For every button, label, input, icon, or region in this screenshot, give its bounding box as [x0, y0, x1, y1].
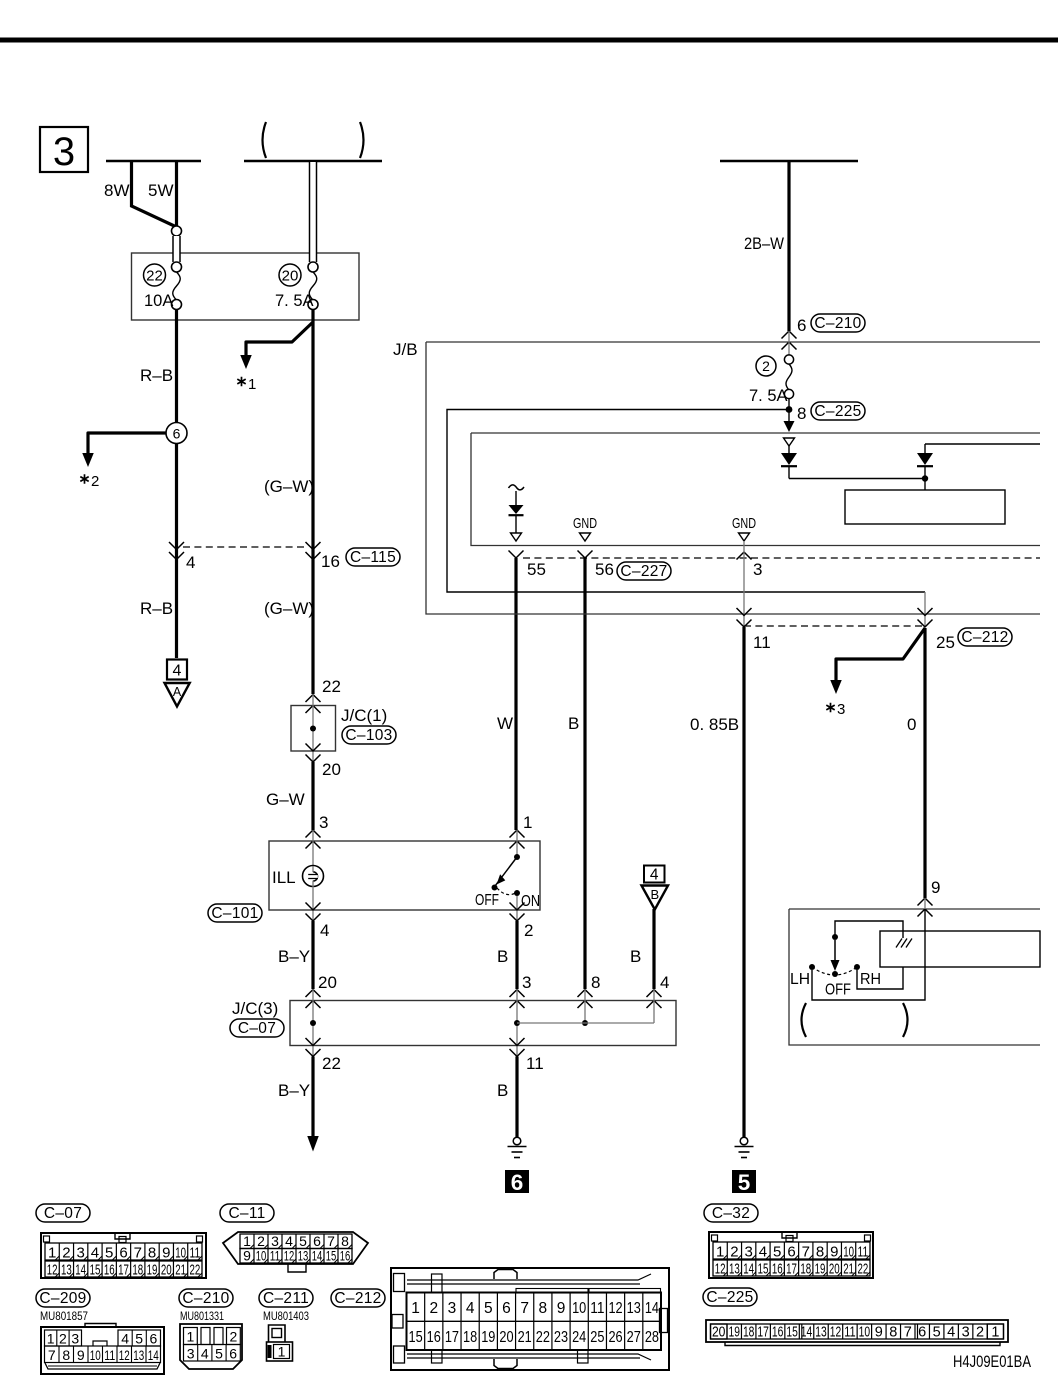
svg-text:6: 6 — [797, 316, 806, 335]
svg-text:6: 6 — [229, 1346, 237, 1362]
svg-text:0. 85B: 0. 85B — [690, 715, 739, 734]
svg-text:21: 21 — [843, 1261, 854, 1278]
connector C-11 drawing — [223, 1232, 368, 1264]
ground triangle A — [165, 683, 190, 707]
svg-text:18: 18 — [800, 1261, 811, 1278]
connector C-225 drawing — [706, 1320, 1008, 1342]
svg-text:4: 4 — [186, 553, 195, 572]
switch common feed to chassis ground — [835, 921, 903, 938]
svg-text:12: 12 — [119, 1347, 130, 1363]
svg-text:3: 3 — [71, 1331, 79, 1347]
J/C(3) wire crossings top — [306, 990, 321, 998]
svg-text:2: 2 — [976, 1325, 984, 1341]
svg-text:19: 19 — [729, 1325, 740, 1341]
optional parenthesis left — [802, 1003, 807, 1037]
svg-text:4: 4 — [660, 973, 669, 992]
connector C-227 dashed line — [523, 557, 1040, 559]
top border rule — [0, 38, 1058, 43]
svg-text:4: 4 — [759, 1244, 767, 1261]
svg-text:18: 18 — [743, 1325, 754, 1341]
svg-text:3: 3 — [187, 1346, 195, 1362]
switch wire crossing top — [510, 830, 525, 838]
fuse 2 in J/B — [788, 331, 790, 355]
fuse 2 output node — [788, 399, 790, 411]
C-227 crossing pin 56 — [578, 551, 593, 559]
svg-text:C–07: C–07 — [44, 1205, 82, 1222]
svg-text:16: 16 — [772, 1261, 783, 1278]
svg-text:27: 27 — [627, 1329, 641, 1346]
svg-text:C–210: C–210 — [814, 315, 861, 332]
svg-text:12: 12 — [284, 1248, 295, 1264]
svg-text:10: 10 — [572, 1300, 586, 1317]
svg-text:11: 11 — [857, 1244, 868, 1261]
terminal triangle below entry — [784, 438, 795, 446]
wire B-Y from lamp — [311, 921, 314, 989]
svg-text:6: 6 — [787, 1244, 795, 1261]
C-225 group separators — [801, 1324, 803, 1339]
svg-text:9: 9 — [243, 1248, 251, 1264]
connector C-212 drawing — [391, 1268, 669, 1370]
svg-text:B–Y: B–Y — [278, 1081, 310, 1100]
svg-text:1: 1 — [411, 1300, 420, 1317]
svg-text:3: 3 — [745, 1244, 753, 1261]
svg-text:4: 4 — [466, 1300, 475, 1317]
svg-text:C–11: C–11 — [228, 1205, 265, 1222]
svg-text:B–Y: B–Y — [278, 947, 310, 966]
svg-text:6: 6 — [150, 1331, 158, 1347]
svg-text:1: 1 — [716, 1244, 724, 1261]
branch to *1 — [246, 322, 313, 355]
svg-text:20: 20 — [829, 1261, 840, 1278]
svg-text:12: 12 — [608, 1300, 622, 1317]
connector C-212 dashed line — [744, 625, 925, 627]
svg-text:9: 9 — [162, 1245, 170, 1262]
wire 0.85B inside J/B — [743, 541, 745, 626]
junction connector J/C(1) C-103 — [291, 706, 336, 752]
svg-text:3: 3 — [319, 813, 328, 832]
svg-text:6: 6 — [173, 426, 181, 442]
arrow B-Y continues — [307, 1136, 319, 1152]
svg-text:10: 10 — [843, 1244, 854, 1261]
connector C-115 dashed line — [183, 546, 307, 548]
svg-text:4: 4 — [173, 663, 182, 680]
switch dashed travel arc — [812, 967, 857, 975]
diode right — [924, 444, 926, 453]
svg-text:9: 9 — [830, 1244, 838, 1261]
svg-text:22: 22 — [146, 268, 163, 285]
switch wire crossing bottom — [510, 903, 525, 911]
svg-text:ILL: ILL — [272, 868, 296, 887]
svg-text:15: 15 — [90, 1262, 101, 1279]
ground ref box 4 — [167, 660, 187, 680]
rear fog lamp switch box — [789, 909, 1040, 1045]
svg-text:12: 12 — [715, 1261, 726, 1278]
svg-text:56: 56 — [595, 560, 614, 579]
svg-text:A: A — [173, 685, 182, 699]
svg-text:12: 12 — [830, 1325, 841, 1341]
left parenthesis on bus — [263, 122, 267, 158]
svg-text:MU801857: MU801857 — [40, 1309, 88, 1323]
svg-text:7: 7 — [520, 1300, 529, 1317]
label *3 — [826, 703, 834, 713]
svg-text:17: 17 — [786, 1261, 797, 1278]
wire R-B from fuse 22 — [175, 309, 178, 658]
svg-text:3: 3 — [753, 560, 762, 579]
svg-text:(G–W): (G–W) — [264, 477, 314, 496]
svg-text:J/B: J/B — [393, 340, 418, 359]
connector C-210 drawing — [180, 1324, 242, 1369]
svg-text:13: 13 — [133, 1347, 144, 1363]
svg-text:22: 22 — [322, 677, 341, 696]
arrow *1 — [240, 355, 252, 369]
connector label C-212 ref — [958, 628, 1012, 646]
C-227 crossing pin 55 — [509, 551, 524, 559]
svg-text:20: 20 — [712, 1325, 726, 1341]
wire B from switch — [515, 921, 518, 989]
svg-text:19: 19 — [481, 1329, 495, 1346]
svg-text:2B–W: 2B–W — [744, 234, 784, 253]
connector C-07 drawing — [41, 1233, 206, 1278]
lamp wire crossing bottom — [306, 903, 321, 911]
ground triangle B — [642, 886, 669, 910]
svg-text:10: 10 — [859, 1325, 870, 1341]
svg-text:1: 1 — [187, 1329, 195, 1345]
svg-text:5: 5 — [773, 1244, 781, 1261]
wire branch to *2 — [88, 433, 166, 453]
wire B from ground ref — [652, 909, 655, 989]
svg-text:5: 5 — [484, 1300, 493, 1317]
label *1 — [237, 377, 245, 387]
svg-text:15: 15 — [758, 1261, 769, 1278]
ground number 5 — [732, 1170, 756, 1193]
svg-text:1: 1 — [248, 376, 256, 393]
svg-text:14: 14 — [75, 1262, 86, 1279]
label *2 — [80, 474, 88, 484]
svg-text:55: 55 — [527, 560, 546, 579]
svg-text:G–W: G–W — [266, 790, 305, 809]
svg-text:B: B — [497, 947, 508, 966]
connector label C-11 — [220, 1204, 274, 1222]
svg-text:H4J09E01BA: H4J09E01BA — [953, 1353, 1031, 1371]
svg-text:C–212: C–212 — [334, 1290, 381, 1307]
wire G-W below J/C(1) — [311, 762, 314, 830]
svg-text:8: 8 — [539, 1300, 548, 1317]
lamp wire crossing top — [306, 830, 321, 838]
svg-text:J/C(1): J/C(1) — [341, 706, 387, 725]
C-225 pin 20 cell — [711, 1324, 728, 1339]
svg-text:9: 9 — [875, 1325, 883, 1341]
connector label C-212 ref2 — [331, 1289, 385, 1307]
svg-text:7: 7 — [802, 1244, 810, 1261]
svg-text:20: 20 — [161, 1262, 172, 1279]
wire W pin 55 — [514, 558, 517, 830]
svg-text:(G–W): (G–W) — [264, 599, 314, 618]
connector label C-32 — [704, 1204, 758, 1222]
svg-text:22: 22 — [189, 1262, 200, 1279]
arrow *2 — [82, 453, 94, 467]
svg-text:11: 11 — [189, 1245, 200, 1262]
J/C(3) wire crossings bottom — [306, 1038, 321, 1046]
svg-text:5: 5 — [738, 1170, 751, 1195]
svg-text:RH: RH — [860, 971, 881, 988]
svg-text:26: 26 — [608, 1329, 622, 1346]
connector label C-209 — [36, 1289, 90, 1307]
svg-text:13: 13 — [61, 1262, 72, 1279]
svg-text:4: 4 — [201, 1346, 209, 1362]
ground symbol 5 — [740, 1137, 748, 1145]
connector label C-210 — [179, 1289, 233, 1307]
svg-text:14: 14 — [743, 1261, 754, 1278]
arrow into relay box — [788, 410, 790, 424]
svg-text:7: 7 — [48, 1347, 56, 1363]
svg-text:3: 3 — [837, 701, 845, 718]
svg-text:1: 1 — [47, 1331, 55, 1347]
C-225 pin 1 cell — [987, 1324, 1003, 1339]
svg-text:7. 5A: 7. 5A — [275, 292, 314, 310]
right parenthesis on bus — [360, 122, 364, 158]
page number box 3 — [40, 127, 88, 172]
svg-text:5: 5 — [105, 1245, 113, 1262]
wire crossing into switch box — [918, 898, 933, 906]
wire B-Y output — [311, 1057, 314, 1138]
wire G-W from fuse 20 — [311, 309, 314, 694]
svg-text:11: 11 — [844, 1325, 855, 1341]
svg-text:16: 16 — [772, 1325, 783, 1341]
zener branch with break — [509, 485, 525, 490]
svg-text:9: 9 — [77, 1347, 85, 1363]
svg-text:8W: 8W — [104, 181, 130, 200]
svg-text:1: 1 — [523, 813, 532, 832]
svg-text:25: 25 — [936, 633, 955, 652]
wire 0 (orange) to switch — [923, 628, 926, 898]
svg-text:OFF: OFF — [475, 892, 499, 909]
svg-text:20: 20 — [499, 1329, 513, 1346]
svg-text:C–225: C–225 — [814, 403, 861, 420]
J/B exit crossing wire 11 — [737, 608, 752, 616]
svg-text:19: 19 — [147, 1262, 158, 1279]
svg-text:2: 2 — [730, 1244, 738, 1261]
svg-text:6: 6 — [918, 1325, 926, 1341]
feed wire from fuse 2 to C-212 pin 25 — [447, 410, 925, 593]
svg-text:21: 21 — [518, 1329, 532, 1346]
svg-text:8: 8 — [62, 1347, 70, 1363]
svg-text:20: 20 — [322, 760, 341, 779]
svg-text:11: 11 — [753, 633, 771, 652]
fuse box — [132, 253, 360, 320]
svg-text:23: 23 — [554, 1329, 568, 1346]
connector C-32 drawing — [709, 1232, 873, 1278]
svg-text:16: 16 — [321, 552, 340, 571]
connector label C-211 — [259, 1289, 313, 1307]
svg-text:13: 13 — [627, 1300, 641, 1317]
wire B pin 56 — [583, 558, 586, 989]
svg-text:22: 22 — [322, 1054, 341, 1073]
svg-text:7. 5A: 7. 5A — [749, 387, 788, 405]
fuse 20 number — [279, 264, 301, 286]
svg-text:3: 3 — [448, 1300, 457, 1317]
ground symbol 6 — [513, 1137, 521, 1145]
svg-text:18: 18 — [463, 1329, 477, 1346]
svg-text:GND: GND — [573, 515, 597, 532]
fuse 2 number — [756, 356, 776, 376]
splice node 6 — [166, 423, 187, 444]
svg-text:R–B: R–B — [140, 599, 173, 618]
svg-text:15: 15 — [409, 1329, 423, 1346]
svg-text:8: 8 — [591, 973, 600, 992]
connector C-209 drawing — [41, 1327, 164, 1374]
svg-text:20: 20 — [318, 973, 337, 992]
J/B exit crossing wire 25 — [918, 608, 933, 616]
svg-text:C–209: C–209 — [39, 1290, 86, 1307]
svg-text:9: 9 — [557, 1300, 566, 1317]
svg-text:J/C(3): J/C(3) — [232, 999, 278, 1018]
wire crossing into J/B — [782, 331, 797, 339]
svg-text:14: 14 — [148, 1347, 159, 1363]
svg-text:C–115: C–115 — [350, 549, 396, 566]
svg-text:14: 14 — [645, 1300, 659, 1317]
svg-text:20: 20 — [282, 268, 299, 285]
ground ref box 4 (B) — [644, 866, 665, 883]
diode feed line to right — [789, 478, 925, 480]
svg-text:5W: 5W — [148, 181, 174, 200]
svg-text:13: 13 — [815, 1325, 826, 1341]
svg-text:4: 4 — [320, 921, 329, 940]
C-115 crossing on R-B wire — [169, 542, 184, 550]
wire 5W — [175, 161, 178, 228]
connector label C-115 — [346, 548, 400, 566]
RH contact wiring — [857, 967, 903, 989]
svg-text:14: 14 — [312, 1248, 323, 1264]
svg-text:C–227: C–227 — [620, 563, 667, 580]
svg-text:28: 28 — [645, 1329, 659, 1346]
connector label C-225 ref2 — [703, 1288, 757, 1306]
svg-text:16: 16 — [340, 1248, 351, 1264]
svg-text:9: 9 — [931, 878, 940, 897]
wire B to ground — [515, 1057, 518, 1138]
svg-text:2: 2 — [230, 1329, 238, 1345]
switch contacts LH OFF RH — [809, 964, 815, 970]
svg-text:LH: LH — [790, 971, 810, 988]
svg-text:5: 5 — [933, 1325, 941, 1341]
wire 2B-W — [787, 161, 790, 331]
svg-text:4: 4 — [91, 1245, 99, 1262]
svg-text:7: 7 — [134, 1245, 142, 1262]
wire 8W — [132, 161, 177, 227]
svg-text:1: 1 — [48, 1245, 56, 1262]
svg-text:4: 4 — [650, 867, 659, 884]
fuse 20 terminals and element — [308, 262, 318, 272]
svg-text:2: 2 — [762, 358, 770, 374]
svg-text:B: B — [630, 947, 641, 966]
svg-text:R–B: R–B — [140, 366, 173, 385]
svg-text:11: 11 — [104, 1347, 115, 1363]
svg-text:13: 13 — [729, 1261, 740, 1278]
svg-text:15: 15 — [326, 1248, 337, 1264]
svg-text:MU801403: MU801403 — [263, 1309, 309, 1323]
svg-text:6: 6 — [502, 1300, 511, 1317]
svg-text:C–07: C–07 — [238, 1020, 276, 1037]
bus bar middle (optional) — [244, 160, 382, 163]
connector label C-101 — [208, 904, 262, 922]
switch wire from pin 9 — [924, 898, 926, 909]
svg-text:8: 8 — [816, 1244, 824, 1261]
fuse 22 number — [144, 264, 166, 286]
svg-text:2: 2 — [524, 921, 533, 940]
svg-text:14: 14 — [801, 1325, 812, 1341]
svg-text:2: 2 — [91, 473, 99, 490]
svg-text:C–101: C–101 — [211, 905, 258, 922]
svg-text:MU801331: MU801331 — [180, 1309, 224, 1323]
svg-text:8: 8 — [148, 1245, 156, 1262]
connector label C-07 — [36, 1204, 90, 1222]
switch inner white module — [880, 931, 1040, 967]
connector label C-227 — [617, 562, 671, 580]
diode main — [788, 446, 790, 453]
illumination lamp unit box C-101 — [269, 841, 540, 910]
svg-text:ON: ON — [521, 893, 540, 910]
J/C(3) internal wires — [312, 989, 314, 1057]
svg-text:12: 12 — [47, 1262, 58, 1279]
svg-text:8: 8 — [797, 404, 806, 423]
svg-text:C–32: C–32 — [712, 1205, 750, 1222]
svg-text:10: 10 — [256, 1248, 267, 1264]
branch to *3 — [836, 628, 925, 680]
svg-text:25: 25 — [590, 1329, 604, 1346]
svg-text:19: 19 — [815, 1261, 826, 1278]
junction block J/B outline — [426, 342, 1040, 614]
svg-text:2: 2 — [59, 1331, 67, 1347]
junction connector J/C(3) C-07 — [290, 1001, 676, 1046]
svg-text:22: 22 — [857, 1261, 868, 1278]
svg-text:5: 5 — [215, 1346, 223, 1362]
svg-text:B: B — [568, 714, 579, 733]
svg-text:6: 6 — [119, 1245, 127, 1262]
svg-text:C–103: C–103 — [345, 727, 392, 744]
svg-text:3: 3 — [962, 1325, 970, 1341]
chassis ground hatch — [896, 939, 912, 948]
svg-text:5: 5 — [135, 1331, 143, 1347]
arrow *3 — [830, 680, 842, 694]
fuse 22 terminals and element — [172, 226, 182, 236]
svg-text:C–212: C–212 — [961, 629, 1008, 646]
svg-text:24: 24 — [572, 1329, 586, 1346]
connector C-211 drawing — [269, 1325, 286, 1342]
svg-text:4: 4 — [121, 1331, 129, 1347]
svg-text:1: 1 — [991, 1325, 999, 1341]
switch moving contact arrow — [834, 940, 836, 962]
ground number 6 — [505, 1170, 529, 1193]
svg-text:3: 3 — [522, 973, 531, 992]
svg-text:16: 16 — [104, 1262, 115, 1279]
svg-text:W: W — [497, 714, 513, 733]
C-115 crossing on G-W wire — [306, 542, 321, 550]
svg-text:22: 22 — [536, 1329, 550, 1346]
relay box in J/B — [924, 479, 926, 491]
svg-text:11: 11 — [270, 1248, 281, 1264]
bus bar right — [720, 160, 858, 163]
svg-text:10A: 10A — [144, 292, 173, 310]
svg-text:0: 0 — [907, 715, 916, 734]
svg-text:4: 4 — [947, 1325, 955, 1341]
connector label C-210 — [811, 314, 865, 332]
svg-text:3: 3 — [77, 1245, 85, 1262]
svg-text:21: 21 — [175, 1262, 186, 1279]
svg-text:8: 8 — [889, 1325, 897, 1341]
svg-text:13: 13 — [298, 1248, 309, 1264]
svg-text:3: 3 — [53, 130, 75, 174]
svg-text:6: 6 — [511, 1170, 524, 1195]
illumination switch contact — [516, 830, 518, 857]
